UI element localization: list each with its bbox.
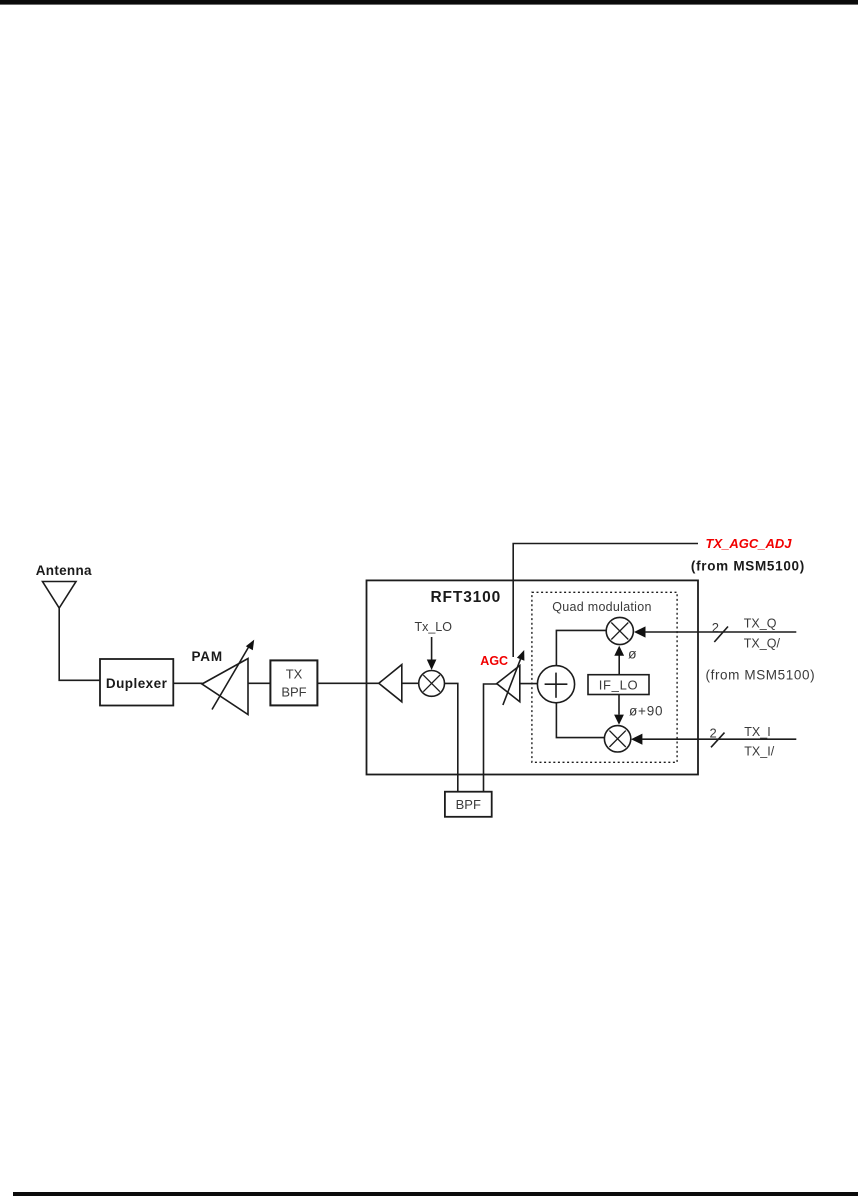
quad modulation box [532, 592, 677, 762]
TX_Q input line with arrowhead [634, 626, 796, 637]
wire duplexer to PAM [173, 682, 202, 684]
label (from MSM5100) middle [706, 668, 816, 683]
summer S1 [537, 666, 574, 703]
wire mixer to BPF (down leg 1) [445, 683, 458, 791]
net TX_AGC_ADJ wire [513, 544, 698, 658]
svg-text:ø+90: ø+90 [629, 704, 663, 719]
duplexer [100, 659, 173, 706]
mixer M3 (I) [604, 726, 630, 752]
TX BPF [270, 660, 317, 705]
node TX_I/ label [744, 745, 774, 759]
svg-text:Quad modulation: Quad modulation [552, 600, 651, 614]
IF_LO up arrow (phase 0) [614, 646, 624, 675]
node TX_I label [744, 725, 770, 739]
amplifier AGC (variable) [497, 650, 525, 705]
wire AGC to summer [520, 683, 538, 685]
antenna label [36, 563, 92, 578]
amplifier U1 [379, 665, 402, 702]
wire amp to mixer [402, 682, 419, 684]
svg-text:AGC: AGC [480, 654, 508, 668]
svg-text:(from MSM5100): (from MSM5100) [691, 559, 805, 574]
TX_I input line with arrowhead [631, 734, 796, 745]
node TX_Q label [744, 617, 777, 631]
mixer M1 [419, 671, 445, 697]
svg-text:PAM: PAM [191, 649, 222, 664]
Tx_LO label [414, 620, 452, 634]
net TX_AGC_ADJ label [706, 536, 793, 551]
IF_LO down arrow (phase 90) [614, 695, 624, 725]
svg-text:2: 2 [712, 620, 719, 635]
svg-text:IF_LO: IF_LO [599, 678, 639, 693]
BPF [445, 792, 492, 817]
svg-text:BPF: BPF [456, 797, 481, 812]
wire summer to upper mixer [556, 630, 606, 665]
svg-text:TX_Q/: TX_Q/ [744, 636, 781, 650]
wire antenna to duplexer [59, 607, 100, 680]
bus width 2 slash (I) [710, 725, 725, 747]
svg-text:Antenna: Antenna [36, 563, 92, 578]
svg-text:Duplexer: Duplexer [106, 676, 168, 691]
svg-text:TX_I/: TX_I/ [744, 745, 774, 759]
antenna [43, 582, 77, 609]
amplifier PAM (variable) [202, 640, 254, 715]
wire BPF to AGC amp (up leg 2) [484, 684, 498, 792]
svg-text:Tx_LO: Tx_LO [414, 620, 452, 634]
svg-text:TX_I: TX_I [744, 725, 770, 739]
PAM label [191, 649, 222, 664]
svg-text:RFT3100: RFT3100 [431, 589, 502, 606]
svg-text:TX_AGC_ADJ: TX_AGC_ADJ [706, 536, 793, 551]
bottom page rule [13, 1192, 858, 1196]
phase label 0 [628, 646, 637, 662]
phase label 90 [629, 704, 663, 719]
node TX_Q/ label [744, 636, 781, 650]
Tx_LO arrow into mixer [427, 637, 437, 670]
svg-text:TX_Q: TX_Q [744, 617, 777, 631]
svg-text:2: 2 [710, 725, 717, 740]
wire TX BPF to RFT3100 amp [317, 682, 379, 684]
svg-text:ø: ø [628, 646, 637, 662]
svg-text:(from MSM5100): (from MSM5100) [706, 668, 816, 683]
AGC label [480, 654, 508, 668]
svg-text:TX: TX [286, 667, 303, 682]
wire PAM to TX BPF [248, 682, 270, 684]
IF_LO [588, 675, 649, 695]
RFT3100 block [367, 580, 699, 774]
top page rule [0, 0, 858, 5]
bus width 2 slash (Q) [712, 620, 728, 642]
svg-text:BPF: BPF [281, 685, 306, 700]
wire summer to lower mixer [556, 703, 604, 738]
label (from MSM5100) top [691, 559, 805, 574]
mixer M2 (Q) [606, 617, 633, 644]
